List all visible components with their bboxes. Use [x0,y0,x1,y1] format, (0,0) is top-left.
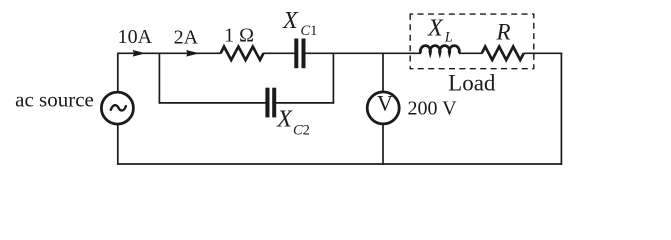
svg-text:V: V [377,91,393,116]
svg-text:C1: C1 [301,23,318,39]
svg-text:X: X [276,107,293,133]
wire top rail segment left (source riser to resistor) [117,52,221,54]
svg-text:X: X [427,16,444,42]
svg-text:Load: Load [448,70,496,95]
svg-text:R: R [496,19,511,44]
wire voltmeter riser top [382,53,384,92]
svg-text:X: X [282,8,299,34]
wire source riser bottom [117,125,119,165]
wire voltmeter riser bottom [382,125,384,165]
load dashed box [410,14,534,69]
voltmeter circle [367,92,399,124]
wire top rail segment between resistor and capacitor C1 [263,52,295,54]
wire branch split vertical junction [158,53,160,104]
wire source riser top [117,53,119,93]
arrow 10A current [133,50,146,57]
wire segment inductor to resistor R [459,52,482,54]
wire lower branch right segment [276,102,334,104]
capacitor C1 left plate [294,39,298,69]
wire lower branch left segment [159,102,266,104]
svg-text:10A: 10A [118,26,153,48]
svg-text:1 Ω: 1 Ω [224,25,254,47]
wire top rail segment capacitor C1 to inductor [305,52,421,54]
resistor R zigzag (load) [482,47,524,60]
svg-text:L: L [444,30,453,46]
svg-text:200 V: 200 V [408,97,458,119]
inductor XL humps [420,46,459,54]
svg-text:C2: C2 [293,122,310,138]
resistor R1 1 ohm zigzag [221,47,264,60]
capacitor C2 left plate [265,88,269,118]
arrow 2A current [186,50,199,57]
wire branch rejoin vertical [332,53,334,104]
svg-text:ac source: ac source [15,87,94,111]
capacitor C2 right plate [272,88,276,118]
wire top rail segment right [524,52,563,54]
svg-text:2A: 2A [174,27,199,49]
wire bottom rail [117,163,562,165]
capacitor C1 right plate [302,39,306,69]
ac source circle [101,92,133,124]
ac source tilde [111,105,126,110]
wire right edge vertical [560,53,562,165]
